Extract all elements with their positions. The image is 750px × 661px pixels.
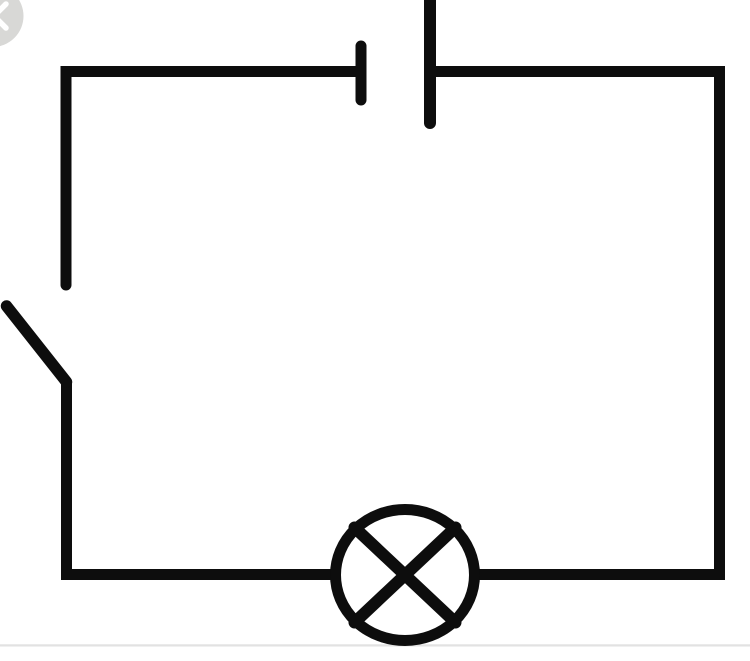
wire: battery negative lead, top-left horizontal run and left vertical down to switch fixed contact (66, 72, 357, 286)
lamp L1 (circle with inscribed X) (336, 510, 475, 641)
wire: main loop - battery positive lead, right vertical, bottom run, up to switch moving terminal (67, 72, 720, 575)
divider line near bottom (0, 644, 750, 646)
battery B1 positive plate (long, runs off top edge) (424, 0, 436, 123)
switch S1 open blade (7, 306, 67, 382)
battery B1 negative plate (short) (356, 46, 367, 100)
close button (grey circle with white X, cropped at top-left corner) (0, 0, 24, 47)
